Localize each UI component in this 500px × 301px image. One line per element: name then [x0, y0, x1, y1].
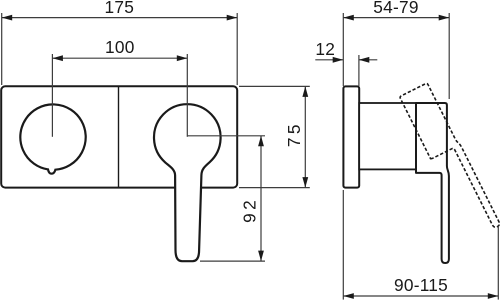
- dim 100: dimension line: [52, 57, 187, 59]
- dim 175: left arrow: [2, 15, 13, 21]
- dim 90-115: dimension line: [343, 295, 498, 297]
- dim 92: dimension line: [260, 136, 262, 261]
- dim 75: top arrow: [302, 86, 308, 97]
- dim 12: right arrow (pointing left): [359, 57, 370, 63]
- dim 54-79: dimension line: [343, 17, 449, 19]
- dim 92: extension line top (from lever pivot): [187, 135, 265, 137]
- dim 75: extension line bottom: [239, 187, 310, 189]
- dim 90-115: extension line left: [342, 190, 344, 300]
- escutcheon plate (front): [1, 86, 237, 187]
- lever handle (front view: circle + lever): [154, 104, 221, 261]
- dim 12: left arrow (pointing right): [333, 57, 344, 63]
- dim 92: extension line bottom (lever tip): [200, 260, 265, 262]
- dim 90-115: left arrow: [343, 293, 354, 299]
- dim 100: extension line right (to circle center): [186, 54, 188, 137]
- dim 175: extension line right: [236, 13, 238, 85]
- svg-text:12: 12: [315, 39, 335, 59]
- dim 100: right arrow: [177, 55, 188, 61]
- svg-text:54-79: 54-79: [373, 0, 418, 17]
- dim 100: extension line left (to circle center): [51, 54, 53, 137]
- dim 54-79: extension line left: [342, 13, 344, 86]
- svg-text:75: 75: [284, 121, 304, 147]
- dim 54-79: extension line right: [448, 13, 450, 99]
- dim 12: left tail: [315, 59, 343, 61]
- dim 92: bottom arrow: [258, 251, 264, 262]
- dim 12: right tail: [359, 59, 378, 61]
- plate divider line: [118, 87, 120, 188]
- dim 92: top arrow: [258, 136, 264, 147]
- lever handle (side, closed position): [416, 103, 449, 263]
- dim 75: dimension line: [304, 86, 306, 187]
- dim 90-115: extension line right: [497, 226, 499, 300]
- dim 175: right arrow: [227, 15, 238, 21]
- svg-text:175: 175: [105, 0, 135, 17]
- dim 90-115: right arrow: [488, 293, 499, 299]
- dim 54-79: right arrow: [439, 15, 450, 21]
- dim 175: extension line left: [1, 13, 3, 85]
- dim 175: dimension line: [2, 17, 238, 19]
- dim 100: left arrow: [52, 55, 63, 61]
- svg-text:90-115: 90-115: [394, 275, 448, 295]
- svg-text:92: 92: [239, 197, 259, 223]
- dim 54-79: left arrow: [343, 15, 354, 21]
- dim 75: bottom arrow: [302, 177, 308, 188]
- dim 75: extension line top: [239, 85, 310, 87]
- lever handle (side, open position, dashed): [400, 82, 500, 240]
- dim 12: extension line right: [358, 55, 360, 86]
- temperature handle circle with bottom notch: [20, 104, 85, 173]
- mixer body (side): [359, 103, 416, 169]
- wall plate (side): [343, 86, 359, 187]
- svg-text:100: 100: [105, 37, 135, 57]
